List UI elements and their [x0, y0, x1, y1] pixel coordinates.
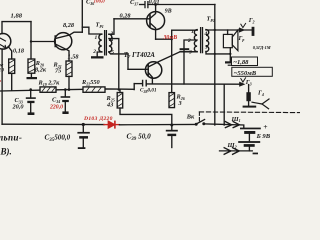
box measurement ~550мВ: [232, 67, 272, 76]
svg-text:3: 3: [188, 49, 192, 55]
svg-text:8,2к: 8,2к: [35, 67, 47, 74]
wire long vertical supply: [214, 5, 216, 126]
svg-text:Вк: Вк: [186, 113, 195, 120]
svg-text:5: 5: [205, 44, 208, 50]
node: [118, 88, 120, 90]
svg-text:100,0: 100,0: [94, 0, 106, 5]
svg-text:+: +: [263, 122, 267, 131]
svg-text:1,58: 1,58: [68, 54, 80, 61]
svg-text:1,88: 1,88: [11, 13, 23, 20]
wire top-left collector rail: [2, 22, 31, 34]
connector Ш2 chevrons: [224, 148, 239, 155]
svg-text:10: 10: [0, 68, 4, 74]
transistor T7 collector lead: [148, 52, 195, 67]
wire bottom rail segment 2: [119, 123, 196, 125]
diode D103 Д220: [104, 121, 119, 128]
svg-text:0,01: 0,01: [149, 0, 160, 6]
svg-text:в: в: [0, 78, 1, 83]
wire TP1 pin5: [109, 52, 128, 54]
svg-text:С380,01: С380,01: [140, 88, 157, 94]
node: [229, 53, 231, 55]
svg-text:1: 1: [95, 35, 98, 41]
socket Г3 wire: [248, 85, 250, 93]
transformer TP2 pin5 wire: [206, 52, 230, 54]
wire R18 leads: [8, 47, 12, 91]
wire T7 base: [128, 68, 148, 70]
resistor R20: [28, 59, 35, 73]
capacitor C37: [140, 2, 148, 8]
wire bottom rail segment 1: [2, 123, 104, 125]
svg-text:2: 2: [187, 38, 191, 44]
svg-text:В).: В).: [0, 146, 12, 156]
wire bottom rail segment 3: [204, 124, 244, 128]
battery Б cell2: [238, 141, 260, 143]
resistor R21: [66, 61, 72, 76]
capacitor C40: [134, 80, 146, 89]
node: [171, 38, 173, 40]
svg-text:2: 2: [92, 49, 96, 55]
transistor T7 base bar: [147, 65, 149, 76]
svg-text:R22550: R22550: [81, 79, 101, 86]
transformer TP1 pin4 wire: [109, 39, 119, 90]
wire to TP1 pin1: [82, 27, 102, 34]
svg-text:4: 4: [110, 37, 114, 43]
wire left emitter column: [1, 49, 3, 124]
svg-text:0,28: 0,28: [120, 13, 132, 20]
node: [68, 88, 71, 91]
node C34: [64, 88, 67, 91]
transformer TP2 pin4 wire: [206, 29, 252, 31]
transformer TP2 pin1 wire: [172, 29, 197, 31]
svg-text:0,5ГД-1М: 0,5ГД-1М: [253, 45, 272, 50]
wire bias column: [30, 22, 32, 59]
battery link: [248, 134, 250, 141]
plug Г4: [252, 99, 269, 109]
wire bottom bus: [0, 89, 134, 91]
arrow test point at Г2: [239, 27, 245, 32]
transformer TP2 left winding: [194, 30, 197, 52]
socket Г3 bar: [246, 92, 250, 101]
svg-text:1: 1: [191, 29, 194, 35]
wire base T6: [31, 41, 55, 43]
svg-text:0,18: 0,18: [13, 47, 25, 54]
node: [214, 53, 216, 55]
svg-text:75: 75: [55, 68, 61, 75]
resistor R18: [9, 59, 15, 73]
transformer TP1 right winding: [109, 34, 112, 52]
transformer TP1 pin2 wire + ground: [97, 52, 102, 56]
svg-text:3: 3: [178, 100, 182, 107]
transformer TP1 left winding: [99, 34, 102, 52]
svg-text:~550мВ: ~550мВ: [234, 70, 257, 77]
svg-text:4: 4: [204, 31, 208, 37]
wire V2: [171, 30, 173, 92]
transformer TP2 core: [201, 28, 203, 53]
minus mark: [253, 153, 258, 155]
capacitor C39: [166, 125, 178, 148]
wire top rail: [148, 4, 215, 6]
svg-text:30мВ: 30мВ: [163, 35, 178, 41]
svg-text:220,0: 220,0: [49, 105, 63, 111]
transistor Q-left (edge, partial): [0, 34, 11, 50]
resistor R25 top lead: [119, 90, 121, 93]
box measurement ~1,88: [232, 57, 258, 66]
svg-text:С37: С37: [130, 0, 139, 6]
svg-text:43: 43: [106, 102, 113, 109]
switch Вк: [195, 123, 198, 126]
node: [154, 3, 157, 6]
transistor T8: [147, 12, 165, 30]
ground under speaker: [229, 54, 231, 61]
transistor T6 base bar: [54, 36, 56, 47]
socket Г2: [252, 27, 255, 36]
svg-text:льпи-: льпи-: [0, 133, 22, 143]
transistor T8 base bar: [149, 15, 151, 26]
transformer TP2 pin2 wire: [184, 40, 197, 84]
transistor T8 emitter lead: [150, 5, 156, 19]
battery Б cell1: [240, 128, 261, 130]
svg-text:20,0: 20,0: [12, 104, 25, 111]
svg-text:Б 9В: Б 9В: [256, 133, 271, 140]
resistor R26: [169, 93, 175, 108]
wire H1 collector link: [156, 38, 172, 40]
svg-text:~1,88: ~1,88: [233, 59, 249, 66]
capacitor C34: [61, 90, 71, 114]
transistor T7: [145, 62, 161, 78]
transistor Q-left leads: [0, 38, 6, 48]
resistor R25: [117, 93, 123, 109]
bar on pin2 drop: [180, 48, 190, 50]
dashed module boundary: [199, 111, 300, 114]
transistor T6: [55, 33, 72, 50]
connector Ш1 chevrons: [225, 122, 239, 128]
transistor T6 collector lead: [55, 32, 82, 38]
arrow test point at Г3: [239, 82, 245, 87]
wire H output line: [147, 83, 240, 85]
svg-text:R19 2,7к: R19 2,7к: [38, 80, 61, 87]
node base junction: [30, 40, 32, 42]
ground under R20: [30, 73, 32, 77]
resistor R22: [83, 87, 105, 92]
svg-text:D103 Д220: D103 Д220: [83, 116, 113, 122]
node C33: [29, 88, 32, 91]
node: [214, 29, 216, 31]
svg-text:3: 3: [110, 31, 114, 37]
capacitor C36 lead: [81, 0, 83, 32]
transistor T8 collector lead: [150, 23, 156, 39]
transistor T7 emitter lead: [148, 73, 152, 84]
wire R21 to bus: [68, 76, 70, 89]
node C35: [82, 123, 85, 126]
transformer TP1 pin3 wire: [109, 19, 114, 34]
svg-text:8,28: 8,28: [63, 22, 75, 29]
capacitor C35: [77, 125, 89, 150]
socket Г3 lower bar: [248, 101, 250, 105]
transistor T6 emitter lead: [55, 44, 69, 61]
transformer TP1 core: [105, 31, 107, 55]
wire riser TP1 pin5 to T7 base: [127, 54, 129, 69]
speaker Гр: [223, 30, 238, 54]
wire R25-R26 bottom link: [120, 108, 172, 125]
connector Ш2 wire: [220, 150, 253, 152]
capacitor C33: [26, 90, 36, 115]
transformer TP2 right winding: [206, 30, 209, 52]
svg-text:9В: 9В: [165, 9, 172, 15]
node C39: [170, 124, 173, 127]
wire branch to jack: [223, 84, 225, 125]
resistor R19: [40, 87, 56, 92]
wire T8 base: [114, 18, 150, 20]
transformer TP2 pin3 wire: [180, 51, 197, 53]
svg-text:5: 5: [111, 49, 114, 55]
battery minus stem: [248, 147, 250, 151]
